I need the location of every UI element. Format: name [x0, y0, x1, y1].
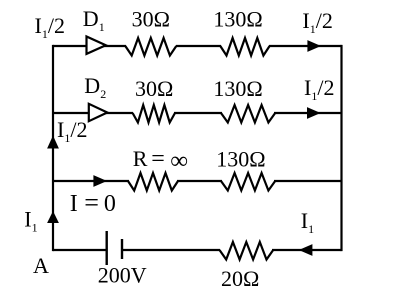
- svg-text:I1/2: I1/2: [302, 8, 332, 36]
- svg-text:130Ω: 130Ω: [216, 147, 265, 172]
- svg-text:I1/2: I1/2: [304, 75, 334, 103]
- svg-text:I1: I1: [301, 208, 314, 236]
- svg-text:A: A: [33, 253, 49, 278]
- svg-text:I1: I1: [24, 206, 37, 234]
- svg-text:D1: D1: [83, 6, 105, 34]
- svg-text:200V: 200V: [98, 262, 147, 287]
- svg-text:30Ω: 30Ω: [135, 76, 173, 101]
- svg-text:R=∞: R=∞: [133, 146, 188, 175]
- svg-text:I1/2: I1/2: [57, 117, 87, 145]
- svg-text:D2: D2: [84, 73, 106, 101]
- svg-text:I1/2: I1/2: [35, 13, 65, 41]
- svg-text:I=0: I=0: [70, 188, 116, 217]
- svg-text:130Ω: 130Ω: [213, 7, 262, 32]
- svg-text:130Ω: 130Ω: [213, 76, 262, 101]
- svg-text:30Ω: 30Ω: [132, 7, 170, 32]
- svg-text:20Ω: 20Ω: [221, 266, 259, 291]
